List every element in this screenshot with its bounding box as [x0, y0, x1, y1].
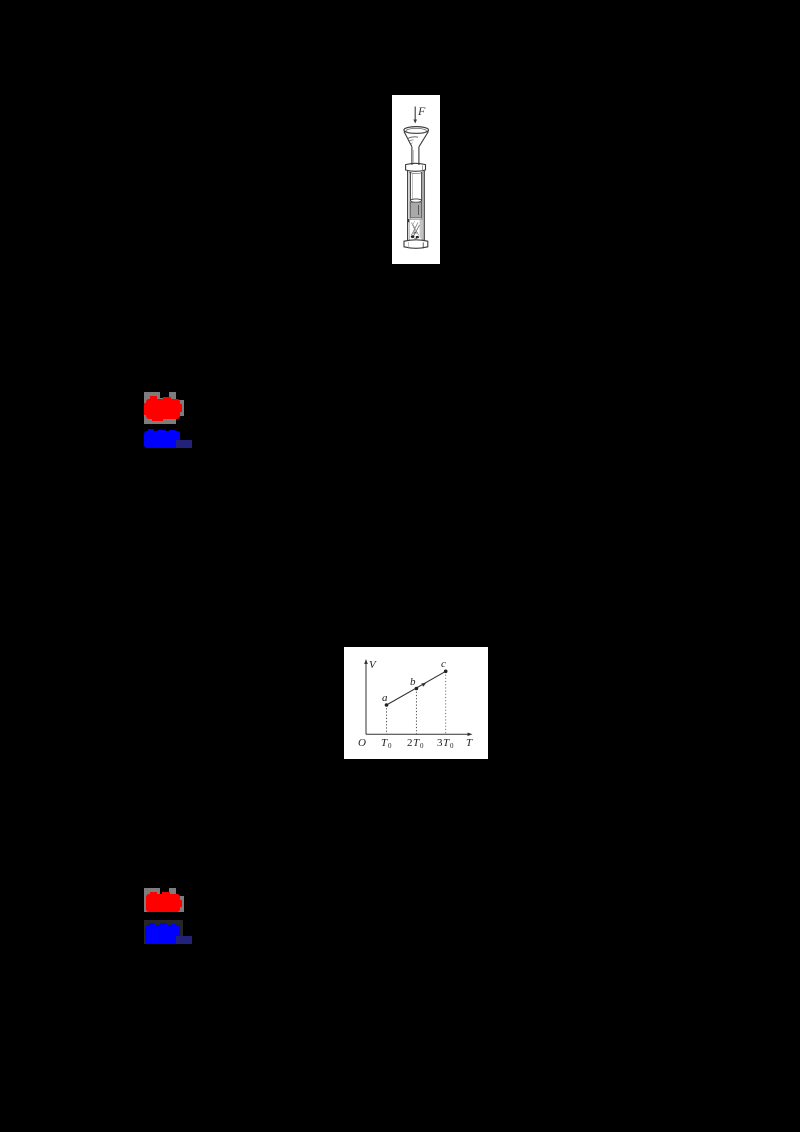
svg-text:0: 0	[450, 742, 454, 750]
a-c process line	[387, 671, 446, 705]
gas region with desiccant scribbles	[408, 218, 423, 239]
navy tail 1	[176, 440, 192, 448]
force arrow F	[413, 107, 417, 124]
red text blob 1	[146, 399, 180, 419]
svg-text:2: 2	[407, 737, 413, 749]
mid arrowhead on line	[421, 683, 426, 687]
dark row bg 2	[144, 920, 183, 944]
blue text blob 2	[145, 925, 180, 944]
svg-text:F: F	[417, 104, 426, 118]
piston rod	[410, 172, 421, 202]
T axis	[366, 733, 469, 735]
svg-text:T: T	[381, 737, 388, 749]
figure 2: V-T graph (white panel)	[344, 647, 488, 759]
black notch in highlight 2	[160, 888, 169, 894]
answer block 1: red tag on gray highlight	[144, 392, 177, 424]
funnel	[404, 127, 429, 147]
navy tail 2	[176, 936, 192, 944]
gray right ext 1	[176, 400, 184, 416]
svg-text:T: T	[466, 737, 473, 749]
outer cylinder	[408, 171, 425, 241]
funnel stem	[412, 147, 419, 165]
V axis	[365, 662, 367, 734]
top collar cap	[406, 163, 426, 171]
red text blob 2	[146, 894, 181, 912]
svg-text:T: T	[413, 737, 420, 749]
svg-text:0: 0	[388, 742, 392, 750]
svg-text:b: b	[410, 676, 416, 688]
blue text blob 1	[144, 431, 180, 448]
base flange	[404, 240, 428, 249]
piston (gray)	[410, 202, 421, 217]
gray right ext 2	[176, 896, 184, 912]
svg-text:a: a	[382, 692, 388, 704]
svg-text:T: T	[443, 737, 450, 749]
svg-text:V: V	[369, 659, 377, 671]
dotted droplines	[386, 705, 388, 734]
svg-text:c: c	[441, 658, 446, 670]
svg-text:O: O	[358, 737, 366, 749]
data points	[385, 703, 389, 707]
answer block 2: red tag on gray highlight	[144, 888, 176, 913]
svg-text:0: 0	[420, 742, 424, 750]
black notch in highlight 1	[160, 392, 169, 398]
figure 1: apparatus (white panel)	[392, 95, 440, 264]
